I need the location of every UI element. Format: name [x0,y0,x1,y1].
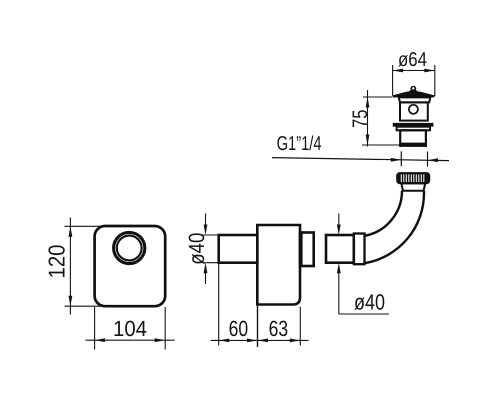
svg-text:63: 63 [269,316,289,341]
side view inlet pipe [219,235,258,263]
dimension 104 extension line right [164,307,166,350]
dimension 60 extension line left [218,264,220,346]
elbow inner curve [364,191,402,236]
svg-text:G1”1/4: G1”1/4 [277,133,322,155]
left diameter 40 extension line top [203,234,219,236]
dimension 120 arrow down [69,296,73,307]
dimension 60/63 line [211,339,309,341]
dimension 75 arrow up [366,97,370,108]
side view outlet thick edge [300,231,303,267]
thread arrow left-pointing [428,158,439,162]
dimension o64 arrow right [424,69,435,73]
dimension 104 arrow left [95,338,106,342]
plug thread tube thick bottom [399,143,426,146]
dimension o64 line [393,70,435,72]
dimension 104 arrow right [155,338,166,342]
plug knob flare [406,90,421,93]
svg-text:ø64: ø64 [398,49,427,71]
plug neck band [399,97,431,102]
thread line tick left [400,151,402,166]
plug knob white dot [412,87,415,90]
plug knob ball [410,86,416,92]
dimension 75 extension top [363,96,392,98]
knurled nut [397,173,429,184]
front view button inner ring [117,236,142,261]
dimension 120 arrow up [69,226,73,237]
thread line tick right [427,152,429,167]
dimension o64 extension left [392,65,394,96]
elbow outer curve [364,191,424,264]
svg-text:75: 75 [349,109,372,128]
dimension 60 arrow right [247,339,258,343]
dimension 63 arrow left [258,339,269,343]
dimension 75 arrow down [366,135,370,146]
plug body [400,102,428,120]
dimension 120 extension line bottom [65,305,102,307]
thread arrow right-pointing [391,158,402,162]
dimension 60 arrow left [219,339,230,343]
dimension o64 extension right [434,65,436,96]
dimension 75 line [367,90,369,147]
plug cap bottom band [393,95,435,97]
dimension 120 extension line top [65,225,102,227]
dimension o64 arrow left [393,69,404,73]
side view body [257,225,300,305]
left diameter 40 extension line bottom [203,262,219,264]
plug flange [393,123,434,127]
thread line G1"1/4 [272,158,449,161]
plug body circle [409,105,418,114]
front view overflow box [95,226,166,306]
right diameter 40 arrow down [338,214,340,229]
dimension 75 extension bottom [362,144,400,146]
svg-text:120: 120 [44,245,70,279]
dimension 104 line [86,339,175,341]
dimension 120 line [69,218,71,315]
left diameter 40 arrow down [205,214,207,229]
dimension 60/63 extension line middle [257,306,259,347]
side view outlet stub [300,233,314,267]
elbow collar [401,183,425,190]
svg-text:ø40: ø40 [354,290,385,315]
svg-text:104: 104 [113,316,147,341]
plug cap cone [393,92,435,97]
left diameter 40 arrow up [205,270,207,284]
right horizontal pipe [326,235,354,263]
plug sub flange [397,127,430,131]
right diameter 40 arrow up with leader [337,263,341,274]
right pipe ring nut [354,234,365,265]
dimension 63 extension line right [299,307,301,346]
dimension 63 arrow right [290,339,301,343]
svg-text:ø40: ø40 [184,233,209,265]
svg-text:60: 60 [229,316,249,341]
front view button outer ring [114,232,145,263]
dimension 104 extension line left [94,307,96,350]
plug thread tube [400,130,426,146]
